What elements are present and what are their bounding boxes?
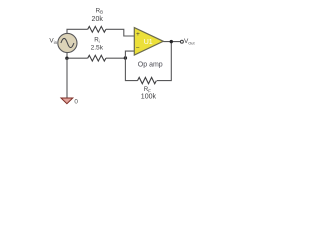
resistor RF — [138, 77, 157, 83]
svg-text:20k: 20k — [92, 16, 104, 23]
svg-text:+: + — [136, 31, 140, 38]
wire source bottom to node A — [67, 53, 88, 59]
source Vin — [58, 33, 77, 52]
svg-text:U1: U1 — [144, 39, 153, 46]
svg-text:Vin: Vin — [49, 38, 57, 45]
resistor Ri — [88, 55, 106, 61]
label RF — [144, 86, 151, 93]
wire RF to output node — [157, 42, 171, 81]
output terminal — [180, 40, 183, 43]
ground 0 — [61, 98, 73, 104]
svg-text:100k: 100k — [141, 94, 157, 101]
wire source top to RB — [67, 29, 88, 34]
resistor RB — [88, 26, 106, 32]
label 0 — [74, 98, 78, 105]
value 2.5k — [91, 44, 104, 51]
label VOut — [184, 38, 195, 45]
label RB — [96, 7, 103, 14]
svg-text:Ri: Ri — [94, 37, 99, 44]
op-amp U1 — [134, 28, 163, 55]
wire RB to plus input — [106, 29, 134, 36]
wire node B down to feedback row — [125, 58, 137, 81]
svg-text:0: 0 — [74, 98, 78, 105]
value 100k — [141, 94, 157, 101]
label Vin — [49, 38, 57, 45]
node B junction dot — [124, 56, 127, 59]
svg-text:VOut: VOut — [184, 38, 195, 45]
svg-text:2.5k: 2.5k — [91, 44, 104, 51]
wire Ri to node B — [106, 57, 126, 59]
wire node B to minus input — [125, 51, 134, 58]
svg-text:RB: RB — [96, 7, 103, 14]
node A junction dot — [65, 57, 68, 60]
wire op-amp output — [163, 41, 180, 43]
value 20k — [92, 16, 104, 23]
wire node A to ground — [66, 58, 68, 98]
svg-text:RF: RF — [144, 86, 151, 93]
label Ri — [94, 37, 99, 44]
label Op amp — [138, 62, 163, 69]
svg-text:Op amp: Op amp — [138, 62, 163, 69]
output node junction dot — [170, 40, 173, 43]
svg-text:−: − — [136, 45, 140, 52]
